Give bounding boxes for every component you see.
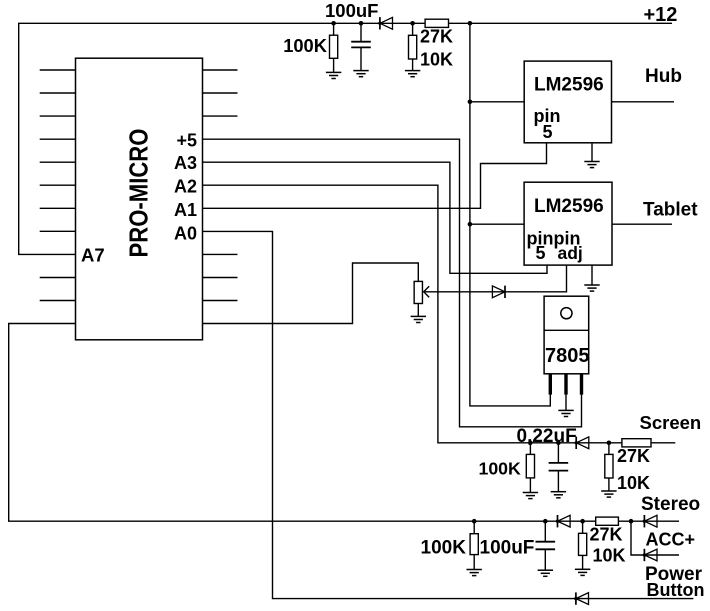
resistor 10K stereo [579, 533, 587, 555]
wire stereo 10K leads [582, 521, 584, 569]
wire 10K R2 leads [412, 23, 414, 70]
svg-text:Tablet: Tablet [643, 200, 698, 221]
wire Tablet input [470, 223, 524, 225]
diode D3 screen [576, 437, 589, 449]
junction stereo 100K [472, 519, 477, 524]
wire A0 to Power Button line [203, 231, 694, 598]
svg-text:27K: 27K [617, 446, 650, 466]
svg-text:A0: A0 [174, 224, 197, 244]
diode D4 stereo line [558, 515, 571, 527]
wire screen cap leads [557, 443, 559, 492]
junction top 10K [410, 21, 415, 26]
wire +12 rail down to 7805 input [470, 23, 550, 406]
7805 legs pins 1 2 3 [549, 374, 552, 395]
wire pin12-left to Stereo line [9, 324, 679, 522]
7805 tab divider line [544, 329, 589, 331]
wire Hub output [612, 101, 675, 103]
arrowhead pot wiper [424, 286, 430, 297]
op-amp U1 PRO-MICRO body [76, 58, 203, 340]
ground stereo 100K [467, 570, 482, 576]
svg-text:ACC+: ACC+ [646, 530, 696, 550]
resistor 10K screen [605, 454, 613, 478]
svg-text:100K: 100K [479, 459, 522, 479]
svg-text:Stereo: Stereo [641, 494, 700, 515]
svg-text:10K: 10K [617, 473, 650, 493]
junction top 100K [331, 21, 336, 26]
junction top cap [359, 21, 364, 26]
svg-text:+5: +5 [176, 131, 197, 151]
resistor 27K screen horizontal [622, 439, 651, 447]
svg-text:100uF: 100uF [480, 538, 535, 559]
svg-text:10K: 10K [420, 49, 453, 69]
svg-text:5: 5 [543, 122, 553, 142]
svg-text:27K: 27K [420, 27, 453, 47]
diode D5 Stereo output [644, 515, 657, 527]
capacitor 100uF stereo [536, 542, 556, 550]
ground Tablet [584, 285, 599, 291]
resistor 27K top horizontal [425, 19, 448, 27]
svg-text:LM2596: LM2596 [534, 75, 604, 96]
wire stereo cap leads [544, 521, 546, 570]
svg-text:A7: A7 [81, 244, 105, 265]
wire +5 net to 7805 output [203, 139, 582, 427]
wire A3 to Tablet pin 5 [203, 162, 548, 273]
wire 100K R1 leads [333, 23, 335, 72]
wire +12 top rail and A7 loop [19, 23, 672, 254]
wire Tablet output [612, 223, 672, 225]
svg-text:LM2596: LM2596 [534, 196, 604, 217]
ground 7805 [558, 410, 573, 416]
junction Hub input [468, 100, 473, 105]
svg-text:7805: 7805 [545, 345, 590, 367]
svg-text:5: 5 [536, 243, 546, 263]
junction stereo cap [543, 519, 548, 524]
diode D6 ACC+ output [644, 549, 657, 561]
ground pot [411, 316, 426, 322]
wire pot to ground [417, 304, 419, 317]
svg-text:A1: A1 [174, 200, 197, 220]
svg-text:Screen: Screen [640, 412, 702, 433]
regulator U2 LM2596 Hub box [524, 61, 611, 143]
junction screen 100K [528, 441, 533, 446]
7805 mounting hole [561, 308, 572, 319]
svg-text:adj: adj [558, 243, 583, 263]
wire A2 to Screen line [203, 185, 676, 443]
ground under 100uF top [353, 71, 368, 77]
diode D2 adj line [492, 286, 505, 298]
svg-text:+12: +12 [644, 4, 678, 26]
svg-text:A3: A3 [174, 153, 197, 173]
diode D1 top [380, 17, 393, 29]
resistor 27K stereo horizontal [596, 517, 619, 525]
wire 7805 ground leg [565, 394, 567, 410]
svg-text:0,22uF: 0,22uF [517, 426, 577, 447]
ground screen 10K [601, 491, 616, 497]
wire screen 100K leads [529, 443, 531, 493]
regulator U3 LM2596 Tablet box [524, 182, 612, 265]
potentiometer body [414, 281, 422, 303]
wire screen 10K leads [608, 443, 610, 491]
svg-text:PRO-MICRO: PRO-MICRO [125, 129, 154, 258]
wire pin12-right to potentiometer top [203, 263, 419, 324]
junction screen 10K [607, 441, 612, 446]
svg-text:10K: 10K [593, 546, 626, 566]
wire A1 to Hub pin 5 [203, 142, 547, 208]
PRO-MICRO left pins [40, 70, 76, 301]
ground under 10K top [405, 71, 420, 77]
junction stereo 10K [580, 519, 585, 524]
wire Tablet adj to pot wiper [424, 265, 567, 292]
junction screen cap [556, 441, 561, 446]
capacitor 0,22uF [549, 463, 569, 471]
ground stereo 10K [575, 569, 590, 575]
wire stereo 100K leads [473, 521, 475, 569]
wire ACC+ branch [631, 521, 679, 555]
junction Tablet input [468, 222, 473, 227]
ground under 100K top [326, 72, 341, 78]
resistor 100K screen [526, 454, 534, 478]
wire 100uF C1 leads [360, 23, 362, 70]
svg-text:Hub: Hub [645, 66, 682, 87]
resistor 100K stereo [470, 534, 478, 555]
ground screen 100K [523, 493, 538, 499]
ground stereo cap [538, 570, 553, 576]
wire Hub input [470, 101, 524, 103]
svg-text:100K: 100K [283, 35, 328, 56]
regulator U4 7805 body [544, 296, 589, 374]
capacitor 100uF top [351, 42, 371, 48]
resistor 100K top [330, 35, 338, 58]
svg-text:A2: A2 [174, 177, 197, 197]
wire Tablet ground stem [591, 265, 593, 285]
ground Hub [584, 162, 599, 168]
wire Hub ground stem [591, 143, 593, 162]
resistor 10K top [409, 35, 417, 59]
svg-text:27K: 27K [590, 525, 623, 545]
junction +12 rail top [468, 21, 473, 26]
svg-text:100K: 100K [421, 538, 467, 559]
PRO-MICRO right stub pins [203, 70, 238, 301]
junction stereo branch [629, 519, 634, 524]
ground screen cap [551, 492, 566, 498]
diode D7 Power Button line [576, 592, 589, 604]
svg-text:100uF: 100uF [325, 0, 378, 21]
svg-text:Button: Button [647, 580, 705, 600]
